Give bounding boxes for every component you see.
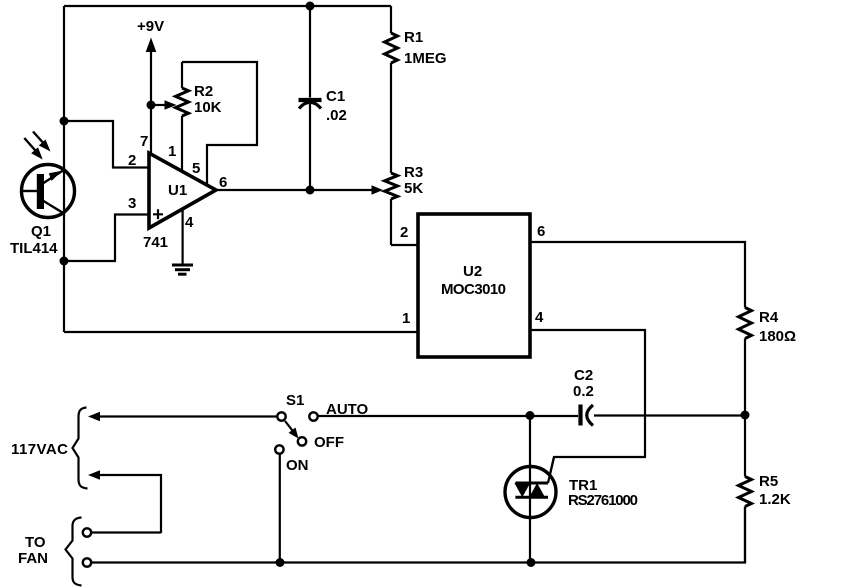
node junction ON / bottom rail <box>276 558 285 567</box>
wire Q1 emitter to op-amp pin3 <box>64 215 148 262</box>
label 180ohm <box>759 328 796 345</box>
label R4 <box>759 309 779 326</box>
op-amp U1 <box>149 153 216 228</box>
svg-text:R1: R1 <box>404 29 423 46</box>
wire U2 pin1 from left rail <box>64 331 418 333</box>
wire U2 pin6 to right rail <box>530 242 745 308</box>
svg-text:2: 2 <box>400 224 408 241</box>
pin 1 label U2 <box>402 310 410 327</box>
node junction top rail / C1 <box>306 2 315 11</box>
svg-text:1: 1 <box>402 310 410 327</box>
wire pin7 <box>150 105 152 155</box>
svg-text:U1: U1 <box>168 182 187 199</box>
label R2 <box>194 83 213 100</box>
wire fan upper lead <box>91 531 161 533</box>
svg-text:2: 2 <box>128 152 136 169</box>
resistor R1 <box>385 6 398 173</box>
svg-text:4: 4 <box>185 214 194 231</box>
label .02 <box>326 107 347 124</box>
label ON <box>286 457 309 474</box>
switch S1 <box>275 412 318 453</box>
label C1 <box>326 88 345 105</box>
wire AUTO line to C2 <box>318 415 578 417</box>
wire op-amp output pin6 <box>216 189 372 191</box>
svg-text:R3: R3 <box>404 164 423 181</box>
svg-text:C1: C1 <box>326 88 345 105</box>
resistor R5 <box>739 415 752 563</box>
pin 2 label <box>128 152 136 169</box>
ground <box>172 265 193 274</box>
svg-text:7: 7 <box>140 133 148 150</box>
svg-text:4: 4 <box>535 309 544 326</box>
svg-text:6: 6 <box>219 174 227 191</box>
label 0.2 <box>573 383 594 400</box>
svg-text:C2: C2 <box>574 367 593 384</box>
label R3 <box>404 164 423 181</box>
potentiometer R2 <box>176 62 189 172</box>
label S1 <box>286 392 304 409</box>
label TO <box>25 534 46 551</box>
svg-text:180Ω: 180Ω <box>759 328 796 345</box>
svg-text:5K: 5K <box>404 180 423 197</box>
node junction output / C1 <box>306 186 315 195</box>
svg-text:1.2K: 1.2K <box>759 491 791 508</box>
svg-text:R4: R4 <box>759 309 779 326</box>
label OFF <box>314 434 344 451</box>
power +9V arrow <box>137 18 164 105</box>
wire bottom rail <box>91 507 745 563</box>
arrowhead to R3 wiper <box>372 185 384 195</box>
pin 6 label U2 <box>537 223 545 240</box>
wire pin4 to ground <box>182 209 184 264</box>
label 1MEG <box>404 50 447 67</box>
svg-text:TIL414: TIL414 <box>10 240 58 257</box>
capacitor C1 <box>299 6 322 190</box>
label 741 <box>143 234 168 251</box>
svg-text:RS2761000: RS2761000 <box>568 492 638 509</box>
bracket TO FAN <box>66 518 82 586</box>
svg-text:FAN: FAN <box>18 550 48 567</box>
pin 6 label <box>219 174 227 191</box>
label 5K <box>404 180 423 197</box>
pin 4 label U2 <box>535 309 544 326</box>
bracket 117VAC <box>73 408 88 489</box>
svg-text:S1: S1 <box>286 392 304 409</box>
label AUTO <box>326 401 369 418</box>
pin 1 label <box>168 143 176 160</box>
svg-text:ON: ON <box>286 457 309 474</box>
label R5 <box>759 473 778 490</box>
triac TR1 <box>505 416 556 563</box>
label 117VAC <box>11 441 68 458</box>
wire top rail <box>64 5 391 7</box>
light arrow 2 into Q1 <box>24 138 42 160</box>
node junction TR1 / bottom rail <box>527 558 536 567</box>
svg-text:5: 5 <box>192 160 200 177</box>
wire R2 top to pin5 <box>182 62 257 185</box>
label FAN <box>18 550 48 567</box>
terminal TO FAN lower <box>83 558 91 566</box>
label Q1 <box>31 223 51 240</box>
wire ON contact down <box>279 454 281 563</box>
wire lower 117VAC arrow from fan line <box>88 470 161 533</box>
wiper arrow to R2 <box>151 100 177 110</box>
pin 5 label <box>192 160 200 177</box>
node junction R4/R5/C2 <box>741 411 750 420</box>
pin 3 label <box>128 195 136 212</box>
svg-text:+9V: +9V <box>137 18 164 35</box>
svg-text:1: 1 <box>168 143 176 160</box>
node junction top of Q1 <box>60 117 69 126</box>
svg-text:117VAC: 117VAC <box>11 441 68 458</box>
transistor Q1 <box>22 165 75 218</box>
svg-text:Q1: Q1 <box>31 223 51 240</box>
light arrow 1 into Q1 <box>33 132 51 152</box>
svg-text:R2: R2 <box>194 83 213 100</box>
label TIL414 <box>10 240 58 257</box>
svg-text:U2: U2 <box>463 263 482 280</box>
svg-text:MOC3010: MOC3010 <box>441 281 506 298</box>
node junction AUTO / TR1 <box>526 411 535 420</box>
svg-text:6: 6 <box>537 223 545 240</box>
label 10K <box>194 99 222 116</box>
capacitor C2 <box>581 405 746 426</box>
pin 2 label U2 <box>400 224 408 241</box>
wire left rail <box>63 6 65 332</box>
wire U2 pin4 to triac gate <box>530 330 645 483</box>
label RS2761000 <box>568 492 638 509</box>
node junction +9V / pin7 / R2 wiper <box>147 101 156 110</box>
pin 7 label <box>140 133 148 150</box>
pin 4 label <box>185 214 194 231</box>
terminal TO FAN upper <box>83 528 91 536</box>
svg-text:TO: TO <box>25 534 46 551</box>
svg-text:10K: 10K <box>194 99 222 116</box>
wire Q1 collector to op-amp pin2 <box>64 121 148 168</box>
optocoupler U2 <box>418 214 530 357</box>
svg-text:OFF: OFF <box>314 434 344 451</box>
label C2 <box>574 367 593 384</box>
svg-text:.02: .02 <box>326 107 347 124</box>
node junction bottom of Q1 <box>60 257 69 266</box>
wire S1 pole to 117VAC <box>88 412 277 422</box>
svg-text:741: 741 <box>143 234 168 251</box>
potentiometer R3 <box>385 173 398 245</box>
label 1.2K <box>759 491 791 508</box>
svg-text:3: 3 <box>128 195 136 212</box>
svg-text:1MEG: 1MEG <box>404 50 447 67</box>
label TR1 <box>569 477 597 494</box>
wire R3 to U2 pin2 <box>391 244 418 246</box>
svg-text:R5: R5 <box>759 473 778 490</box>
label R1 <box>404 29 423 46</box>
resistor R4 <box>739 308 752 416</box>
svg-text:0.2: 0.2 <box>573 383 594 400</box>
